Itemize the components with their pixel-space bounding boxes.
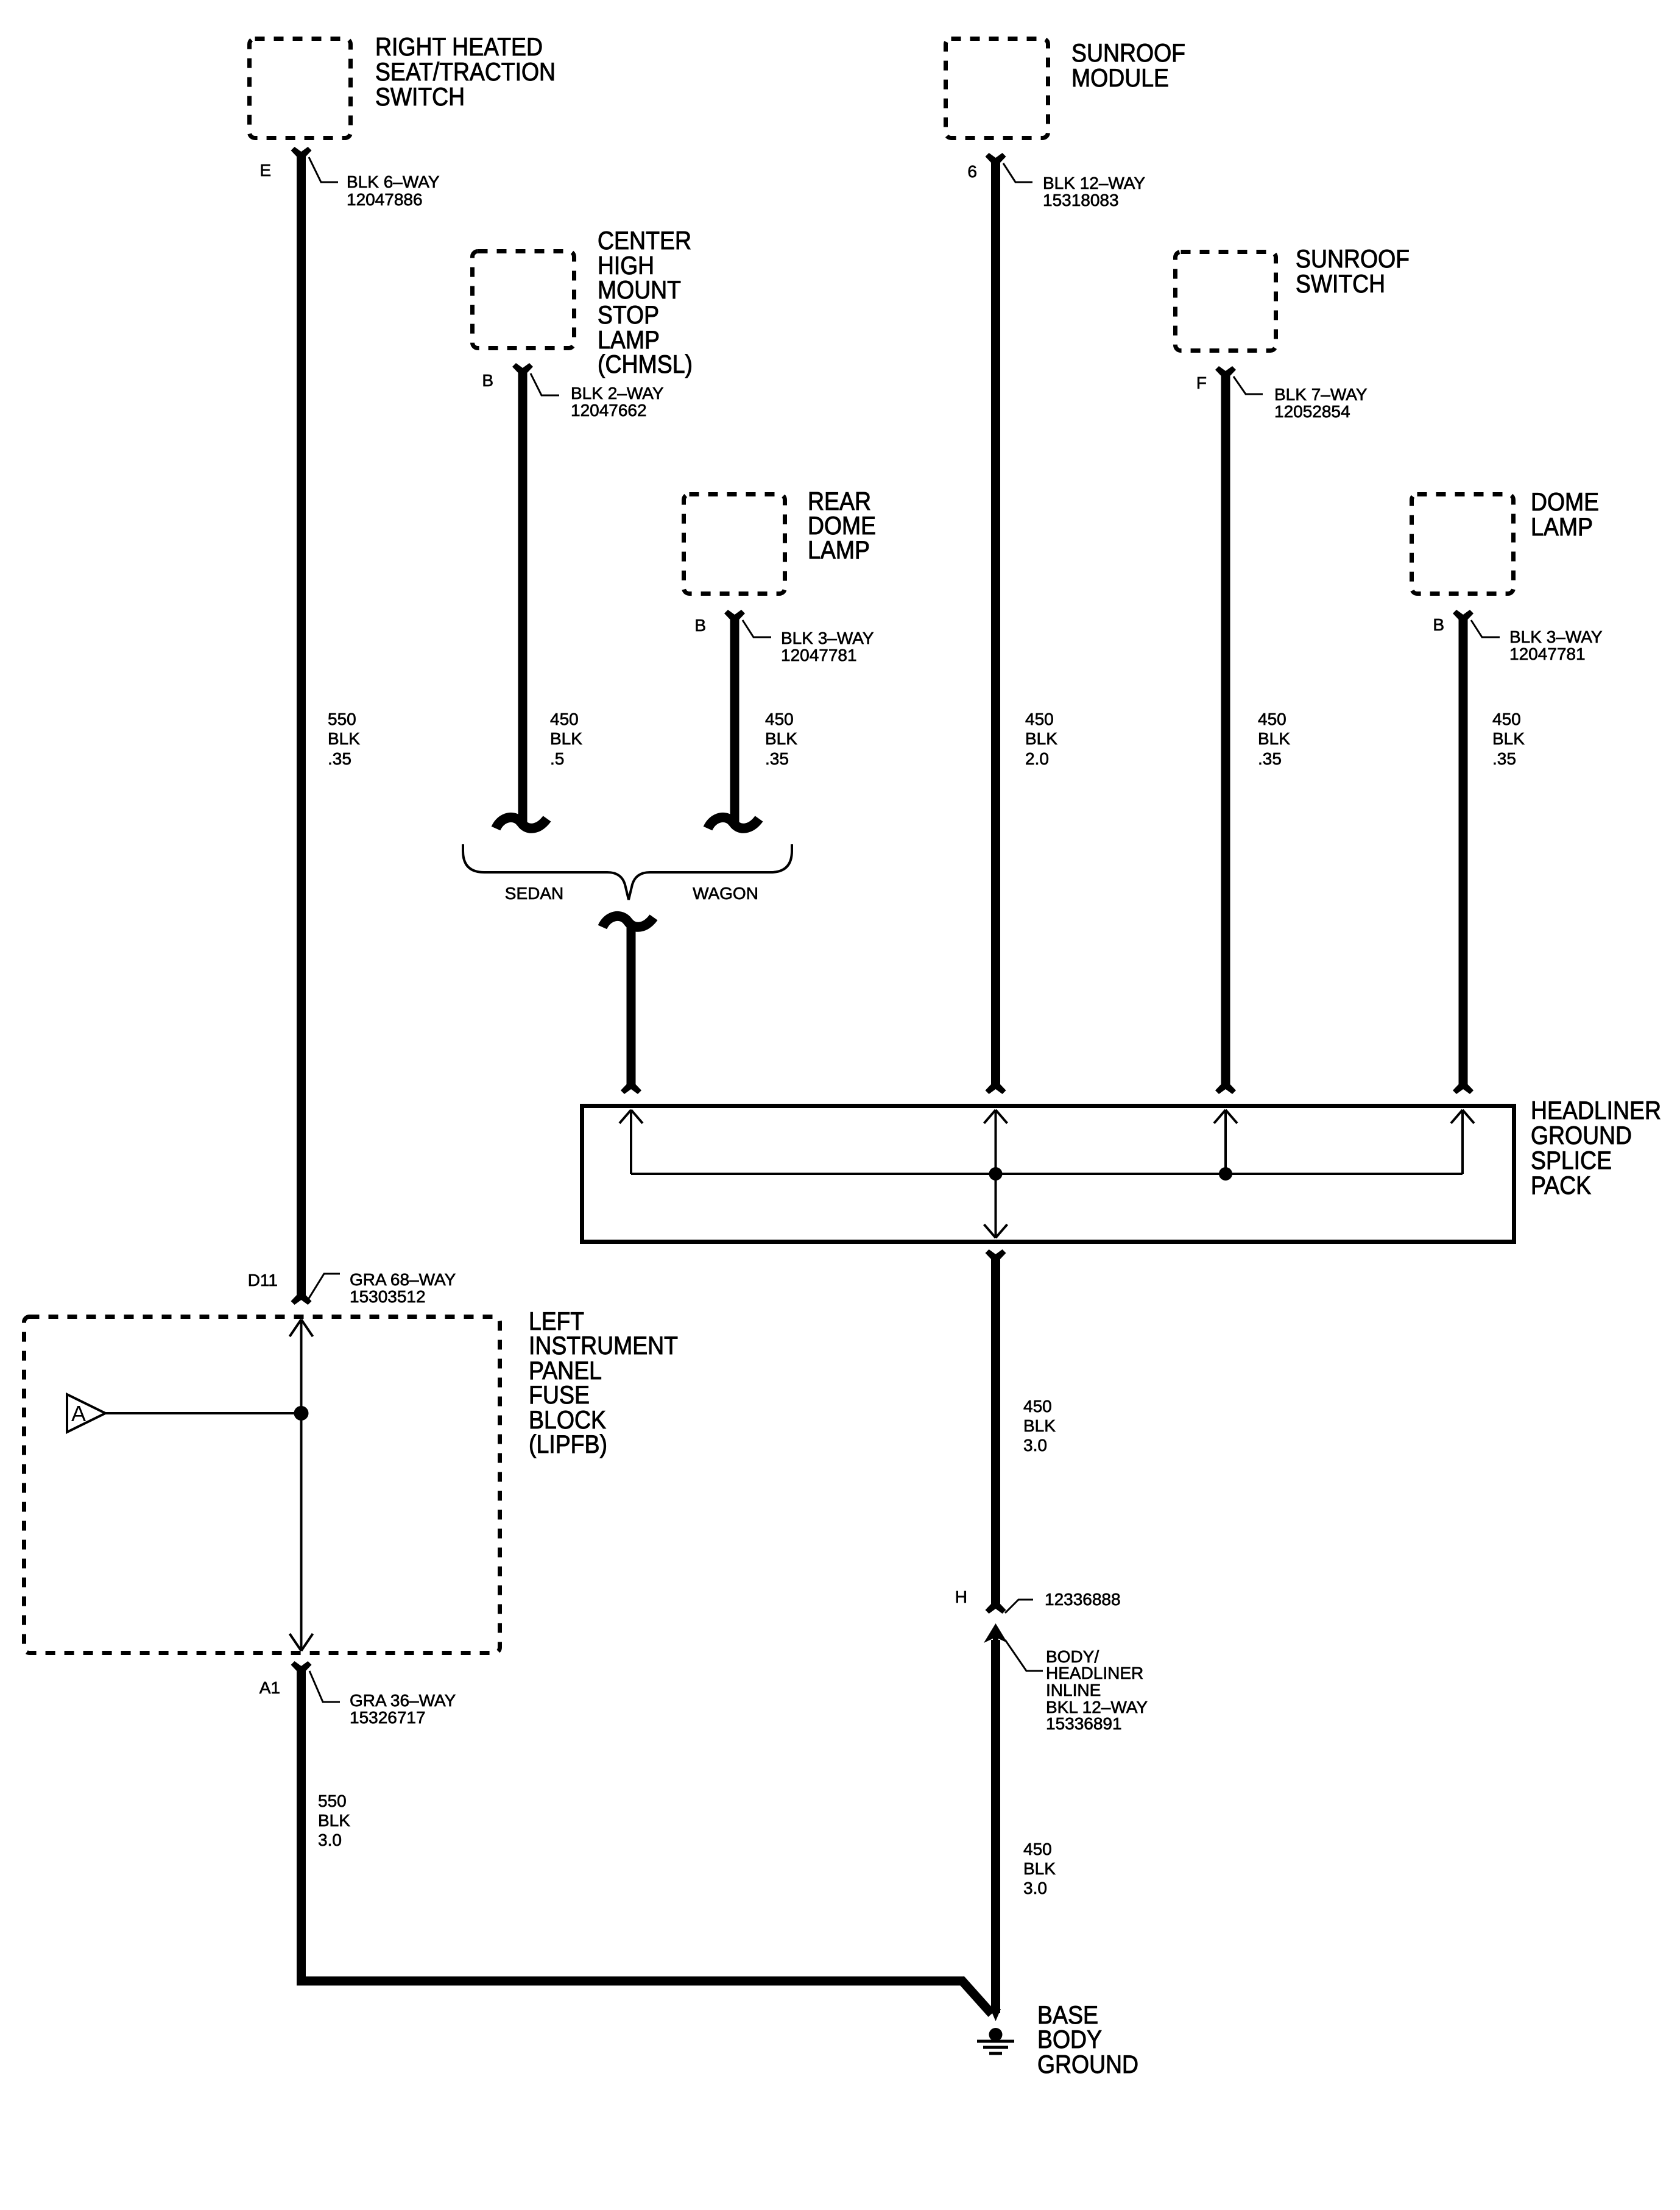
svg-text:SWITCH: SWITCH: [1296, 269, 1385, 298]
headliner ground splice pack box: [582, 1106, 1514, 1242]
sedan/wagon brace: [463, 844, 792, 900]
svg-text:15336891: 15336891: [1046, 1714, 1122, 1733]
svg-text:SUNROOF: SUNROOF: [1296, 244, 1410, 273]
svg-text:SEDAN: SEDAN: [505, 884, 563, 903]
leader F: [1234, 376, 1263, 394]
svg-text:F: F: [1196, 373, 1207, 392]
svg-text:BLK: BLK: [1025, 729, 1057, 748]
label BLK 3-WAY 12047781 (rear dome): [781, 629, 874, 665]
wire value 450 BLK .35 (sunroof switch): [1258, 710, 1290, 768]
wire 450 BLK .35 (rear dome lamp): [730, 616, 739, 824]
svg-text:A1: A1: [259, 1678, 280, 1697]
leader 6: [1003, 163, 1032, 182]
svg-text:LAMP: LAMP: [808, 535, 870, 564]
svg-text:DOME: DOME: [1531, 487, 1599, 516]
label BLK 12-WAY 15318083: [1043, 174, 1145, 210]
leader H: [1005, 1600, 1033, 1613]
connector (combined wire into splice pack): [621, 1084, 641, 1094]
svg-text:550: 550: [318, 1792, 347, 1810]
svg-text:12052854: 12052854: [1274, 402, 1350, 421]
connector (sunroof switch wire into splice pack): [1215, 1084, 1236, 1094]
svg-text:BLK 2–WAY: BLK 2–WAY: [571, 384, 664, 403]
svg-text:450: 450: [1258, 710, 1286, 729]
wire diagonal into ground node: [961, 1979, 992, 2014]
svg-text:B: B: [482, 371, 493, 390]
wire value 450 BLK 2.0: [1025, 710, 1057, 768]
svg-text:A: A: [71, 1401, 86, 1426]
connector E (BLK 6-WAY): [291, 147, 312, 157]
svg-text:LAMP: LAMP: [1531, 512, 1593, 541]
sunroof module label: [1071, 38, 1185, 92]
svg-text:12047781: 12047781: [781, 646, 857, 665]
label GRA 36-WAY 15326717: [350, 1691, 456, 1727]
svg-text:.35: .35: [1492, 749, 1516, 768]
wire sedan/wagon to splice pack: [627, 925, 636, 1087]
svg-text:.35: .35: [765, 749, 789, 768]
wire 550 BLK .35 (E to D11): [297, 154, 306, 1298]
leader B CHMSL: [531, 373, 559, 395]
label BLK 3-WAY 12047781 (dome lamp): [1509, 627, 1603, 663]
WAGON label: [693, 884, 758, 903]
svg-text:FUSE: FUSE: [529, 1380, 590, 1409]
pin H label: [955, 1587, 967, 1606]
svg-text:BLK 3–WAY: BLK 3–WAY: [781, 629, 874, 648]
svg-text:D11: D11: [248, 1271, 278, 1290]
label GRA 68-WAY 15303512: [350, 1270, 456, 1306]
left instrument panel fuse block box: [24, 1317, 500, 1653]
svg-text:H: H: [955, 1587, 967, 1606]
svg-text:HEADLINER: HEADLINER: [1531, 1096, 1661, 1124]
connector (ground wire out of splice pack): [986, 1249, 1006, 1259]
connector B dome lamp (BLK 3-WAY): [1453, 610, 1474, 620]
splice down arrow: [984, 1174, 1008, 1238]
splice junction dot 2: [1219, 1167, 1232, 1181]
CHMSL label: [598, 226, 693, 378]
svg-text:15326717: 15326717: [350, 1708, 426, 1727]
sunroof switch label: [1296, 244, 1410, 298]
body/headliner inline arrow connector: [984, 1623, 1008, 1647]
leader D11: [308, 1274, 340, 1299]
page connector A triangle: [67, 1394, 105, 1432]
pin B label (CHMSL): [482, 371, 493, 390]
pin D11 label: [248, 1271, 278, 1290]
LIPFB label: [529, 1307, 678, 1458]
pin B label (rear dome): [694, 616, 706, 635]
connector (sunroof module wire into splice pack): [986, 1084, 1006, 1094]
svg-text:INSTRUMENT: INSTRUMENT: [529, 1331, 678, 1360]
wire 450 BLK 3.0 (splice to H): [991, 1256, 1000, 1607]
label BLK 2-WAY 12047662: [571, 384, 664, 420]
svg-text:BLK: BLK: [1492, 729, 1525, 748]
rear dome lamp label: [808, 487, 876, 564]
svg-text:GROUND: GROUND: [1037, 2050, 1138, 2078]
connector D11 (GRA 68-WAY): [291, 1295, 312, 1305]
label BODY/HEADLINER INLINE BKL 12-WAY 15336891: [1046, 1647, 1148, 1733]
svg-text:SWITCH: SWITCH: [375, 82, 465, 111]
svg-text:12336888: 12336888: [1045, 1590, 1121, 1609]
svg-text:3.0: 3.0: [1023, 1436, 1047, 1455]
sunroof switch box: [1176, 252, 1276, 351]
pin B label (dome lamp): [1433, 615, 1444, 634]
svg-text:HEADLINER: HEADLINER: [1046, 1664, 1143, 1682]
svg-text:BLK 3–WAY: BLK 3–WAY: [1509, 627, 1603, 646]
svg-text:BLK: BLK: [765, 729, 797, 748]
svg-text:BLK 6–WAY: BLK 6–WAY: [347, 172, 440, 191]
connector A1 (GRA 36-WAY): [291, 1661, 312, 1671]
pin E label: [259, 161, 271, 180]
pin 6 label: [967, 162, 977, 181]
svg-text:6: 6: [967, 162, 977, 181]
wire value 450 BLK .5: [550, 710, 582, 768]
svg-text:SUNROOF: SUNROOF: [1071, 38, 1185, 67]
wire 450 BLK .5 (CHMSL): [518, 370, 528, 824]
leader B dome lamp: [1471, 620, 1500, 637]
dome lamp label: [1531, 487, 1599, 541]
svg-text:.35: .35: [1258, 749, 1282, 768]
wire 450 BLK .35 (dome lamp): [1459, 616, 1468, 1087]
wire value 450 BLK .35 (dome lamp): [1492, 710, 1525, 768]
svg-text:2.0: 2.0: [1025, 749, 1049, 768]
svg-text:550: 550: [328, 710, 356, 729]
svg-text:BLK: BLK: [318, 1811, 350, 1830]
svg-text:BLK 12–WAY: BLK 12–WAY: [1043, 174, 1145, 192]
svg-text:BLK: BLK: [1023, 1859, 1056, 1878]
pin A1 label: [259, 1678, 280, 1697]
leader body/headliner: [1005, 1640, 1043, 1671]
svg-text:BLK: BLK: [328, 729, 360, 748]
svg-text:(CHMSL): (CHMSL): [598, 350, 693, 378]
wire 450 BLK .35 (sunroof switch): [1221, 373, 1230, 1087]
svg-text:450: 450: [1023, 1397, 1052, 1416]
leader E: [309, 157, 338, 182]
svg-text:450: 450: [550, 710, 579, 729]
svg-text:GRA 36–WAY: GRA 36–WAY: [350, 1691, 456, 1710]
dome lamp box: [1412, 495, 1514, 594]
svg-text:STOP: STOP: [598, 300, 659, 329]
wire A to junction: [105, 1412, 302, 1414]
svg-text:GROUND: GROUND: [1531, 1121, 1632, 1149]
svg-text:E: E: [259, 161, 271, 180]
svg-text:B: B: [694, 616, 706, 635]
svg-text:PACK: PACK: [1531, 1171, 1591, 1199]
svg-text:450: 450: [1023, 1840, 1052, 1859]
svg-text:MOUNT: MOUNT: [598, 275, 681, 304]
label 12336888: [1045, 1590, 1121, 1609]
svg-text:12047886: 12047886: [347, 190, 423, 209]
svg-text:15303512: 15303512: [350, 1287, 426, 1306]
connector H (12336888): [986, 1604, 1006, 1614]
wire pointed tip at ground: [990, 2009, 1001, 2021]
ground symbol: [977, 2028, 1014, 2053]
svg-text:B: B: [1433, 615, 1444, 634]
svg-text:RIGHT HEATED: RIGHT HEATED: [375, 32, 543, 61]
LIPFB internal circuit line with arrows: [290, 1319, 313, 1651]
wire value 450 BLK 3.0 (upper): [1023, 1397, 1056, 1455]
splice arrow 3: [1214, 1110, 1237, 1174]
wire 550 BLK 3.0 (A1 to ground): [302, 1668, 964, 1981]
page connector A letter: [71, 1401, 86, 1426]
wire value 550 BLK 3.0: [318, 1792, 350, 1849]
pin F label: [1196, 373, 1207, 392]
break symbol (CHMSL wire): [496, 817, 547, 828]
sunroof module box: [946, 39, 1048, 138]
wire value 450 BLK 3.0 (lower): [1023, 1840, 1056, 1898]
wire 450 BLK 2.0 (sunroof module): [991, 160, 1000, 1087]
base body ground label: [1037, 2000, 1138, 2078]
splice arrow 1: [619, 1110, 643, 1174]
svg-text:3.0: 3.0: [318, 1830, 342, 1849]
svg-text:BODY: BODY: [1037, 2025, 1102, 2053]
svg-text:.35: .35: [328, 749, 351, 768]
svg-text:.5: .5: [550, 749, 564, 768]
splice junction dot 1: [989, 1167, 1003, 1181]
label BLK 7-WAY 12052854: [1274, 385, 1368, 421]
wire 450 BLK 3.0 (inline to ground): [991, 1640, 1000, 2013]
svg-text:GRA 68–WAY: GRA 68–WAY: [350, 1270, 456, 1289]
connector F (BLK 7-WAY): [1215, 366, 1236, 376]
right heated seat/traction switch label: [375, 32, 556, 111]
svg-text:15318083: 15318083: [1043, 191, 1119, 210]
svg-text:450: 450: [1025, 710, 1054, 729]
break symbol (combined wire): [602, 916, 654, 927]
svg-text:BLK: BLK: [1023, 1416, 1056, 1435]
svg-text:CENTER: CENTER: [598, 226, 691, 255]
svg-text:BLK 7–WAY: BLK 7–WAY: [1274, 385, 1368, 404]
svg-text:INLINE: INLINE: [1046, 1681, 1101, 1700]
connector B rear dome (BLK 3-WAY): [724, 610, 745, 620]
connector 6 (BLK 12-WAY): [986, 153, 1006, 163]
CHMSL box: [473, 252, 574, 348]
connector B CHMSL (BLK 2-WAY): [512, 363, 533, 373]
svg-text:SEAT/TRACTION: SEAT/TRACTION: [375, 57, 556, 86]
wire value 550 BLK .35: [328, 710, 360, 768]
svg-text:12047781: 12047781: [1509, 644, 1586, 663]
break symbol (rear dome wire): [708, 817, 759, 828]
label BLK 6-WAY 12047886: [347, 172, 440, 209]
svg-text:SPLICE: SPLICE: [1531, 1146, 1612, 1174]
leader B rear dome: [743, 620, 771, 637]
splice arrow 2: [984, 1110, 1008, 1174]
splice internal bus wire: [631, 1173, 1463, 1175]
headliner ground splice pack label: [1531, 1096, 1661, 1199]
svg-text:MODULE: MODULE: [1071, 63, 1169, 92]
connector (dome lamp wire into splice pack): [1453, 1084, 1474, 1094]
right heated seat/traction switch box: [250, 39, 351, 138]
SEDAN label: [505, 884, 563, 903]
svg-text:450: 450: [765, 710, 794, 729]
junction dot LIPFB: [294, 1406, 309, 1421]
splice arrow 4: [1451, 1110, 1474, 1174]
svg-text:3.0: 3.0: [1023, 1879, 1047, 1898]
svg-text:BLK: BLK: [1258, 729, 1290, 748]
svg-text:12047662: 12047662: [571, 401, 647, 420]
rear dome lamp box: [684, 495, 785, 594]
svg-text:BLK: BLK: [550, 729, 582, 748]
svg-text:(LIPFB): (LIPFB): [529, 1430, 607, 1458]
svg-text:WAGON: WAGON: [693, 884, 758, 903]
svg-text:450: 450: [1492, 710, 1521, 729]
leader A1: [309, 1671, 340, 1702]
wire value 450 BLK .35 (rear dome): [765, 710, 797, 768]
